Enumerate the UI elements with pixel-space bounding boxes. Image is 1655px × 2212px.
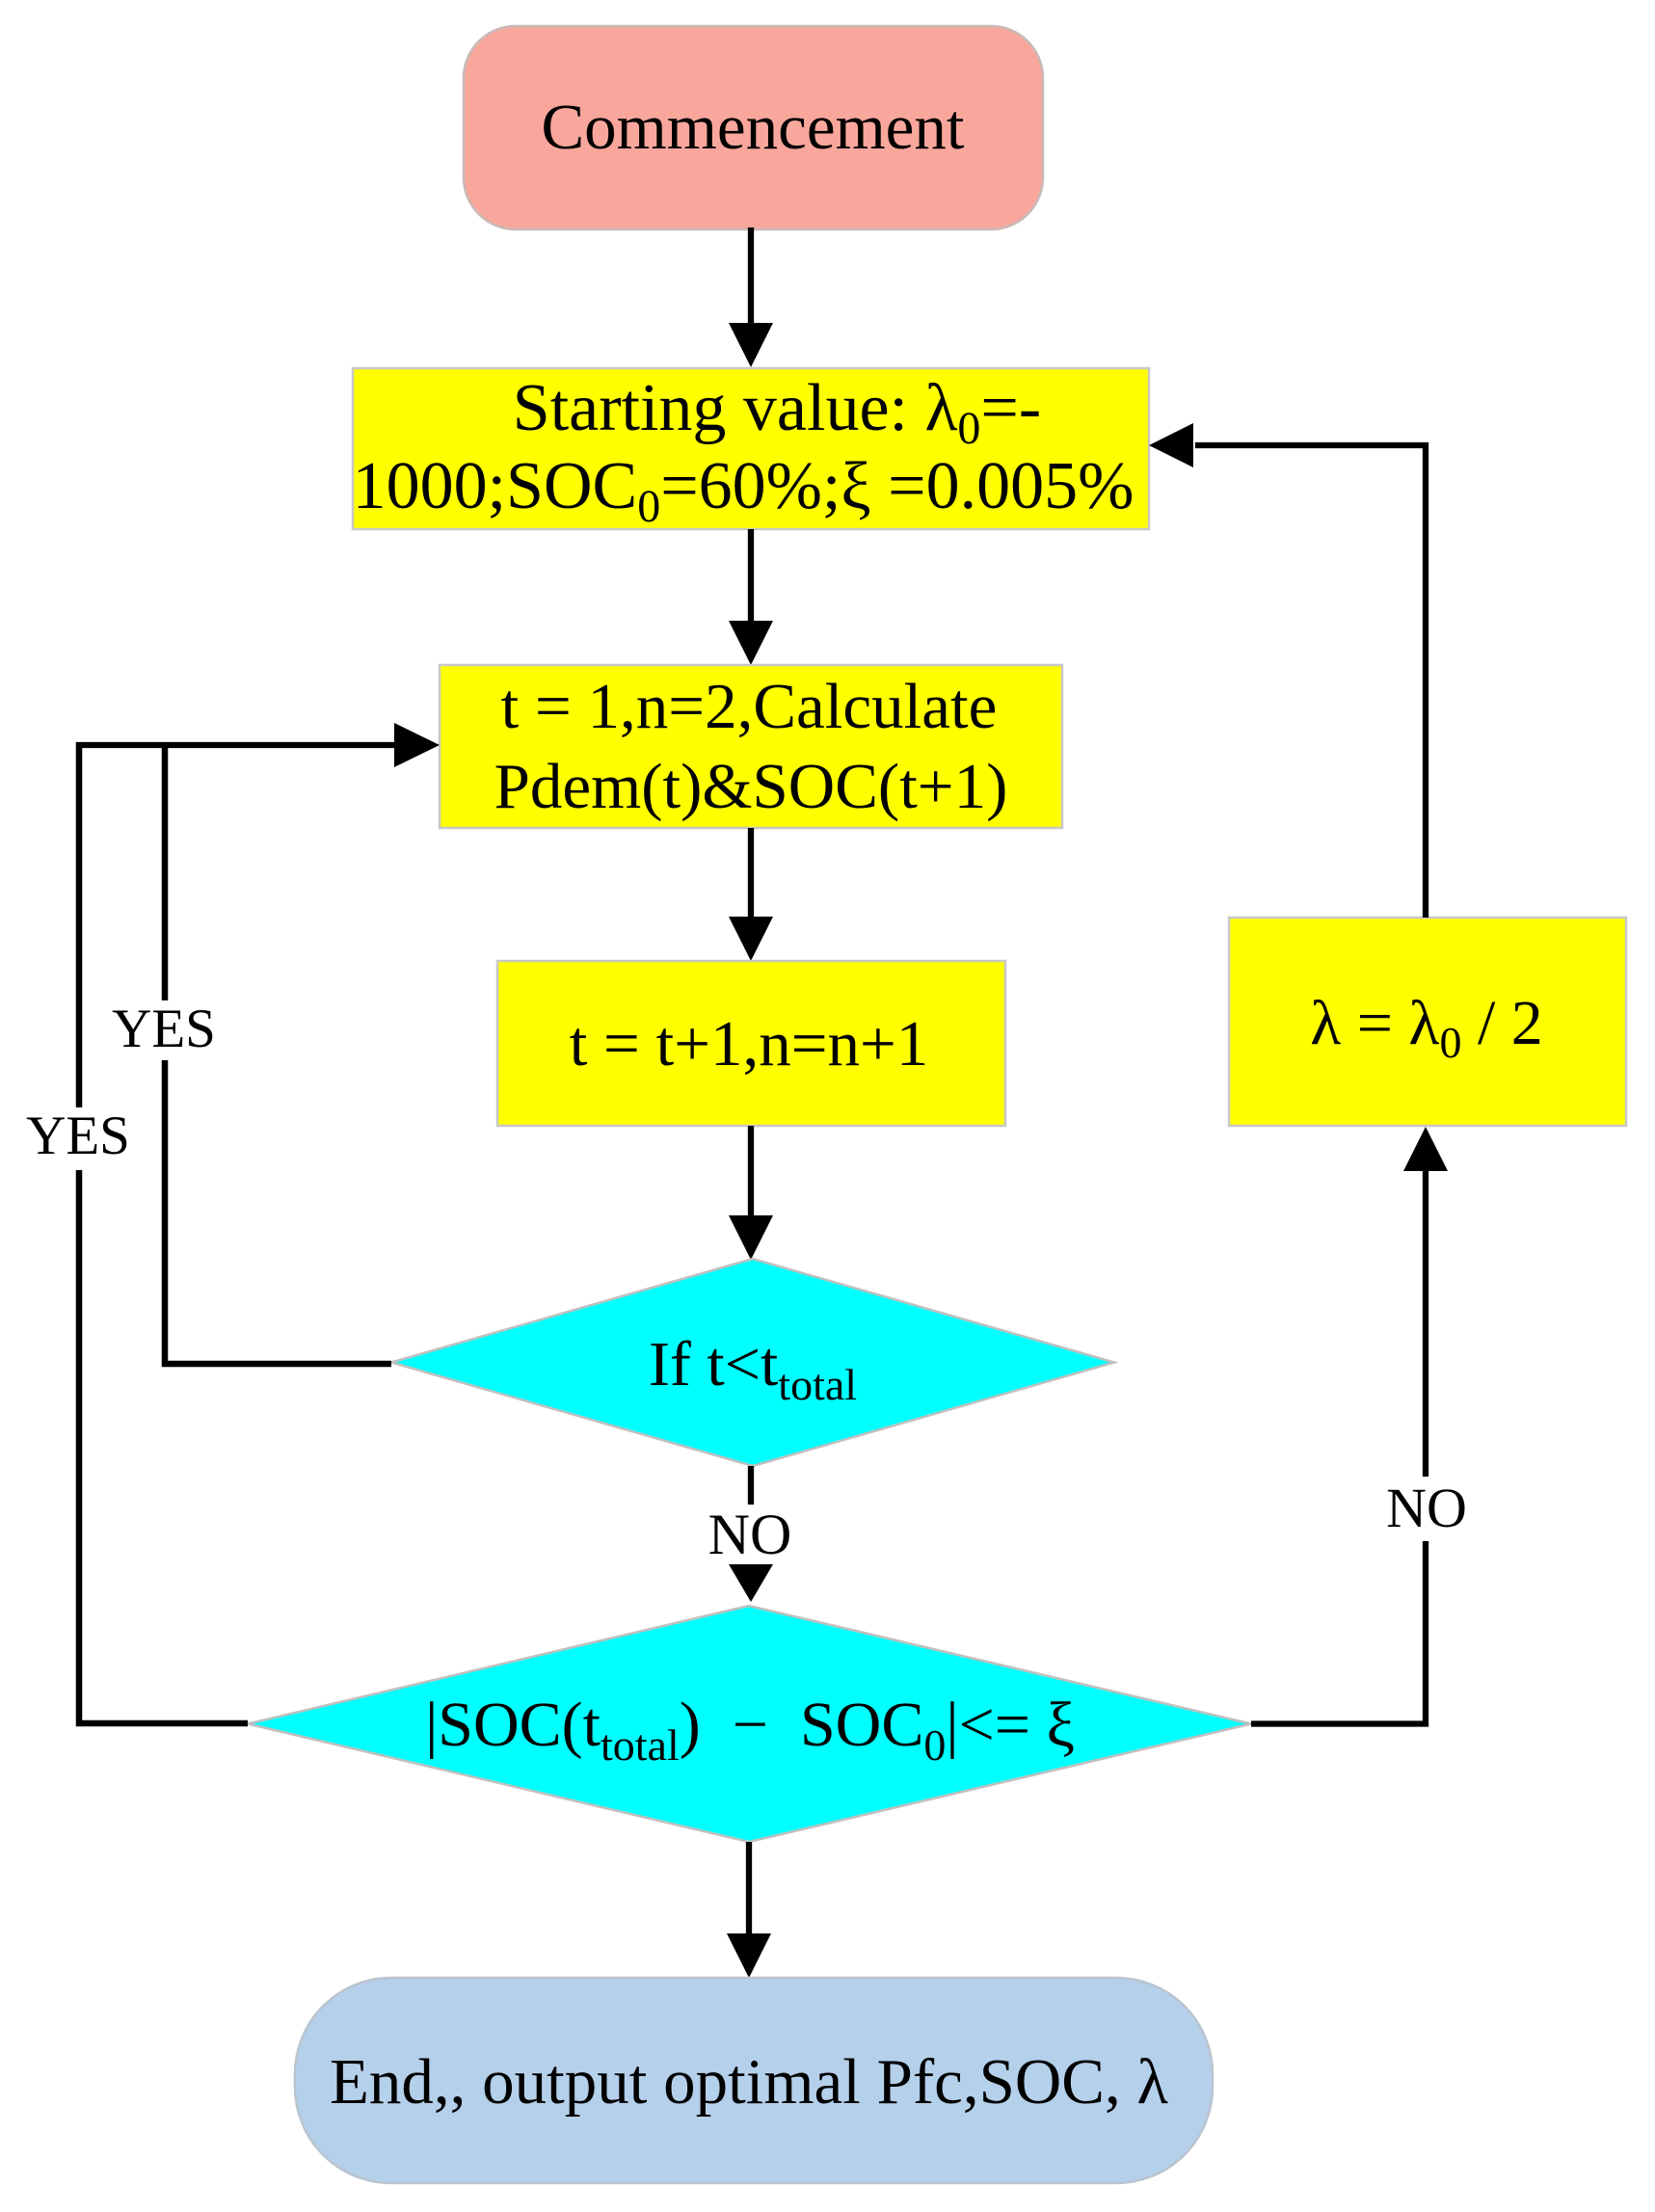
decision diamond If t < t_total [391, 1259, 1114, 1466]
svg-text:t = 1,n=2,Calculate: t = 1,n=2,Calculate [501, 671, 998, 742]
terminator End [295, 1978, 1213, 2183]
wire left: YES path from decision 2 up [79, 742, 248, 1723]
process box Calculate [440, 665, 1062, 828]
process box lambda update [1229, 918, 1626, 1126]
svg-text:Pdem(t)&SOC(t+1): Pdem(t)&SOC(t+1) [494, 751, 1008, 822]
svg-text:NO: NO [1386, 1477, 1467, 1539]
svg-text:1000;SOC0=60%;ξ =0.005%: 1000;SOC0=60%;ξ =0.005% [353, 449, 1134, 532]
svg-text:End,, output optimal Pfc,SOC,: End,, output optimal Pfc,SOC, λ [330, 2046, 1169, 2118]
wire arrow from Starting value to Calculate [729, 529, 773, 665]
wire left: YES path from decision 1 into Calculate [165, 742, 391, 1364]
svg-text:YES: YES [112, 999, 216, 1059]
label NO below decision 1 [708, 1466, 792, 1602]
process box Starting value [353, 368, 1149, 532]
svg-text:YES: YES [26, 1106, 130, 1166]
process box increment [497, 961, 1005, 1126]
svg-text:Commencement: Commencement [541, 92, 964, 163]
wire arrow from decision 2 to End [727, 1842, 771, 1978]
svg-text:|SOC(ttotal) − SOC0|<= ξ: |SOC(ttotal) − SOC0|<= ξ [425, 1690, 1075, 1770]
svg-text:t = t+1,n=n+1: t = t+1,n=n+1 [570, 1008, 929, 1079]
decision diamond SOC condition [248, 1606, 1251, 1842]
wire arrow from Commencement to Starting value [729, 227, 773, 367]
terminator Commencement [464, 26, 1043, 229]
wire right: decision 2 to lambda box [1251, 1127, 1448, 1724]
svg-text:NO: NO [708, 1503, 792, 1566]
wire top horizontal into Calculate [76, 723, 440, 767]
svg-text:λ = λ0 / 2: λ = λ0 / 2 [1310, 988, 1543, 1067]
wire right: lambda box up and into Starting value [1149, 423, 1426, 918]
wire arrow from Calculate to increment box [729, 828, 773, 961]
wire arrow from increment to decision 1 [729, 1126, 773, 1260]
